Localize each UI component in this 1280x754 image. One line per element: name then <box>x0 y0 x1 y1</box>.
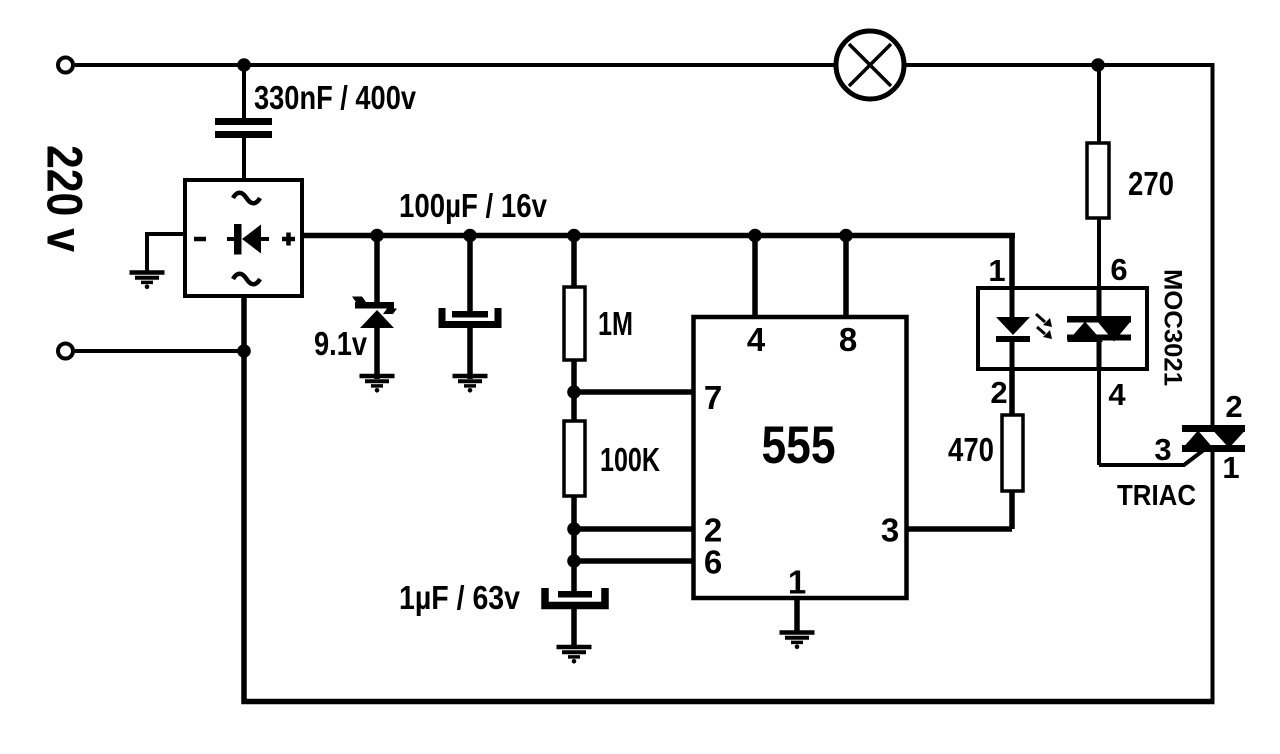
svg-text:1: 1 <box>988 253 1005 288</box>
svg-text:6: 6 <box>1110 252 1127 287</box>
svg-text:4: 4 <box>747 321 766 358</box>
svg-text:9.1v: 9.1v <box>314 325 368 362</box>
svg-text:7: 7 <box>704 379 722 416</box>
svg-text:1M: 1M <box>598 305 633 342</box>
svg-text:1: 1 <box>788 564 806 601</box>
svg-text:MOC3021: MOC3021 <box>1159 269 1187 386</box>
svg-text:270: 270 <box>1128 165 1174 202</box>
svg-text:6: 6 <box>704 544 722 581</box>
svg-text:555: 555 <box>762 416 836 475</box>
svg-text:3: 3 <box>881 512 899 549</box>
svg-text:470: 470 <box>948 431 994 468</box>
svg-text:3: 3 <box>1154 432 1171 467</box>
svg-text:TRIAC: TRIAC <box>1117 480 1196 512</box>
svg-text:4: 4 <box>1108 377 1126 412</box>
svg-text:100µF / 16v: 100µF / 16v <box>399 187 548 224</box>
svg-text:330nF / 400v: 330nF / 400v <box>254 79 417 116</box>
svg-text:2: 2 <box>1225 389 1242 424</box>
svg-text:220 v: 220 v <box>37 145 93 252</box>
svg-text:1µF / 63v: 1µF / 63v <box>399 579 521 616</box>
svg-text:2: 2 <box>990 375 1007 410</box>
svg-text:8: 8 <box>839 321 857 358</box>
svg-text:1: 1 <box>1222 450 1239 485</box>
svg-text:100K: 100K <box>600 441 660 478</box>
